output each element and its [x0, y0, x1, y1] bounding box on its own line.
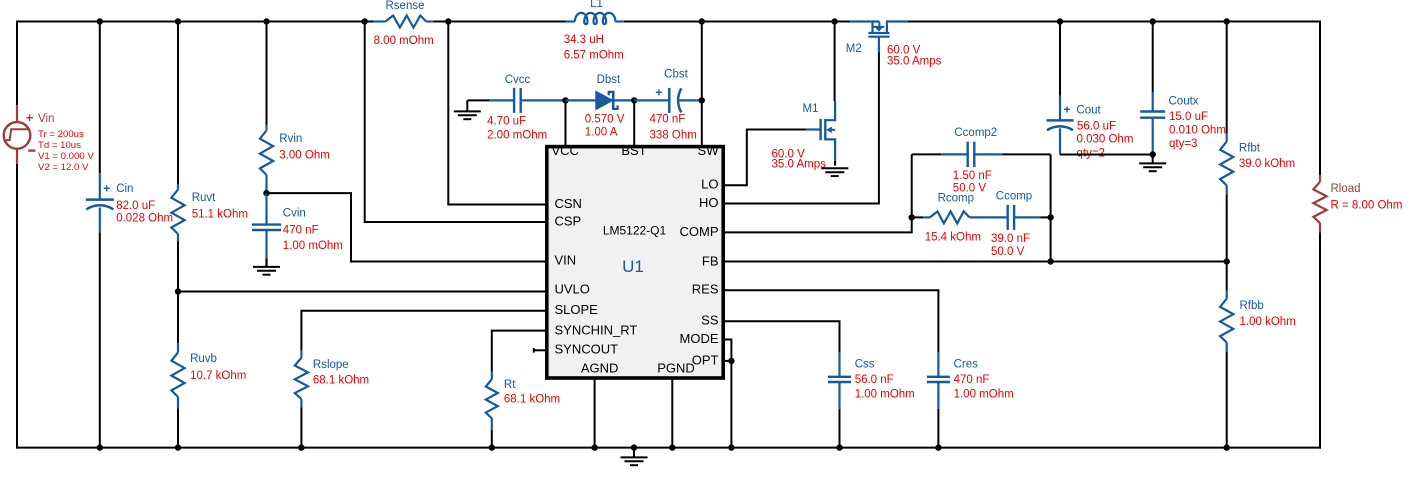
capacitor Cbst	[668, 88, 671, 113]
svg-text:R = 8.00 Ohm: R = 8.00 Ohm	[1331, 199, 1403, 211]
svg-text:Rcomp: Rcomp	[938, 192, 974, 204]
capacitor Cout	[1059, 96, 1061, 121]
wire M1 source	[834, 161, 836, 166]
node top rail Rvin junction	[263, 18, 269, 24]
node UVLO junction	[175, 288, 181, 294]
svg-text:Rsense: Rsense	[386, 0, 425, 12]
wire Ccomp2 left lead	[912, 153, 942, 155]
wire MODE net	[723, 340, 731, 448]
svg-text:M2: M2	[846, 43, 862, 55]
svg-text:0.010 Ohm: 0.010 Ohm	[1169, 124, 1226, 136]
node comp right junction	[1047, 214, 1053, 220]
wire Rfbb bottom	[1226, 352, 1228, 448]
ground M1	[821, 167, 848, 169]
transistor M1	[819, 119, 821, 140]
svg-text:L1: L1	[590, 0, 603, 10]
wire Dbst to BST node	[613, 99, 634, 101]
svg-text:35.0 Amps: 35.0 Amps	[772, 159, 827, 171]
resistor Rslope	[300, 351, 302, 358]
svg-text:SW: SW	[698, 143, 720, 158]
svg-text:56.0 uF: 56.0 uF	[1077, 121, 1116, 133]
svg-text:AGND: AGND	[581, 360, 619, 375]
svg-text:6.57 mOhm: 6.57 mOhm	[564, 49, 624, 61]
wire Rcomp to Ccomp	[970, 216, 1008, 218]
resistor Ruvt	[177, 184, 179, 190]
svg-text:+: +	[103, 181, 110, 195]
svg-text:50.0 V: 50.0 V	[991, 246, 1025, 258]
svg-text:39.0 kOhm: 39.0 kOhm	[1239, 158, 1295, 170]
svg-text:Rvin: Rvin	[279, 133, 302, 145]
wire comp left vertical	[911, 154, 913, 217]
node bottom rail Ruvb junction	[175, 444, 181, 450]
wire UVLO	[178, 291, 547, 293]
node bottom rail AGND junction	[591, 444, 597, 450]
wire Rt bottom	[491, 430, 493, 448]
svg-text:1.00 A: 1.00 A	[585, 126, 618, 138]
wire AGND pin	[594, 378, 596, 448]
svg-text:SLOPE: SLOPE	[555, 302, 599, 317]
svg-text:Cvcc: Cvcc	[505, 74, 531, 86]
node BST junction	[631, 97, 637, 103]
node top rail Cout junction	[1057, 18, 1063, 24]
svg-text:1.00 mOhm: 1.00 mOhm	[954, 389, 1014, 401]
wire PGND pin	[671, 378, 673, 448]
svg-text:CSN: CSN	[555, 196, 582, 211]
wire Cvcc to VCC node	[521, 99, 566, 101]
svg-text:Ruvt: Ruvt	[192, 192, 216, 204]
svg-text:SS: SS	[701, 313, 719, 328]
wire RES net	[723, 290, 938, 352]
resistor Rfbb	[1226, 291, 1228, 299]
resistor Rvin	[265, 125, 267, 131]
wire OPT stub	[723, 360, 731, 362]
capacitor Cvin	[265, 193, 267, 225]
ground Cvcc	[466, 100, 468, 111]
wire Ccomp2 right lead	[974, 153, 1002, 155]
wire Rfbb top	[1226, 262, 1228, 291]
node bottom rail Cin junction	[97, 444, 103, 450]
node top rail Ruvt junction	[175, 18, 181, 24]
wire Rload bottom	[1319, 232, 1321, 448]
svg-text:51.1 kOhm: 51.1 kOhm	[192, 209, 248, 221]
svg-text:Rload: Rload	[1331, 183, 1361, 195]
svg-text:15.0 uF: 15.0 uF	[1169, 111, 1208, 123]
svg-text:1.50 nF: 1.50 nF	[953, 170, 992, 182]
svg-text:56.0 nF: 56.0 nF	[855, 374, 894, 386]
svg-text:1.00 mOhm: 1.00 mOhm	[855, 389, 915, 401]
svg-text:Rfbb: Rfbb	[1240, 300, 1264, 312]
wire LO net	[723, 130, 806, 186]
wire SW pin	[701, 22, 703, 147]
svg-text:RES: RES	[692, 282, 719, 297]
wire Cout ground link	[1060, 154, 1153, 156]
wire Rvin top	[266, 22, 268, 125]
svg-text:34.3 uH: 34.3 uH	[564, 34, 604, 46]
svg-text:OPT: OPT	[692, 352, 719, 367]
svg-text:39.0 nF: 39.0 nF	[991, 233, 1030, 245]
svg-text:338 Ohm: 338 Ohm	[650, 130, 697, 142]
wire top rail L1 to M2	[624, 21, 850, 23]
svg-text:Ruvb: Ruvb	[190, 353, 217, 365]
svg-text:M1: M1	[803, 103, 819, 115]
node Rsense left junction	[362, 18, 368, 24]
wire top rail Vin to Rsense	[16, 21, 374, 23]
wire Cin bottom	[99, 233, 101, 448]
wire BST node to Cbst	[634, 99, 669, 101]
svg-text:1.00 mOhm: 1.00 mOhm	[283, 240, 343, 252]
wire top rail M2 to output corner	[908, 21, 1321, 23]
wire VCC node to Dbst	[566, 99, 596, 101]
node Cvin junction	[263, 190, 269, 196]
voltage source Vin	[16, 105, 18, 122]
node FB Rfbt junction	[1224, 258, 1230, 264]
ground Cvin	[265, 258, 267, 267]
svg-text:Cin: Cin	[116, 183, 133, 195]
wire Cin top	[99, 22, 101, 174]
svg-text:Rfbt: Rfbt	[1239, 143, 1261, 155]
svg-text:qty=3: qty=3	[1169, 138, 1197, 150]
wire comp right vertical	[1050, 154, 1052, 261]
node top rail Cin junction	[97, 18, 103, 24]
wire top rail Rsense to L1	[434, 21, 566, 23]
wire left edge bottom	[16, 164, 18, 449]
capacitor Css	[838, 352, 840, 377]
node bottom rail PGND junction	[669, 444, 675, 450]
wire CSN net	[448, 22, 546, 205]
resistor Rt	[491, 372, 493, 380]
ground Cout Coutx	[1152, 155, 1154, 164]
resistor Rcomp	[930, 211, 970, 223]
svg-text:MODE: MODE	[680, 331, 719, 346]
wire SS net	[723, 321, 840, 352]
svg-text:Rslope: Rslope	[313, 359, 349, 371]
node comp left junction	[909, 214, 915, 220]
wire M1 drain	[834, 22, 836, 102]
svg-text:1.00 kOhm: 1.00 kOhm	[1240, 316, 1296, 328]
svg-text:VIN: VIN	[555, 252, 577, 267]
svg-text:Ccomp: Ccomp	[996, 190, 1032, 202]
svg-text:LM5122-Q1: LM5122-Q1	[603, 223, 667, 237]
svg-text:+: +	[1064, 103, 1071, 117]
node output ground junction	[1150, 151, 1156, 157]
svg-text:15.4 kOhm: 15.4 kOhm	[925, 231, 981, 243]
wire Ruvt to Ruvb	[177, 242, 179, 344]
inductor L1	[566, 20, 575, 22]
wire Cout top	[1059, 22, 1061, 96]
node SW junction top rail	[699, 18, 705, 24]
wire HO net	[723, 53, 879, 204]
svg-text:Td = 10us: Td = 10us	[38, 140, 81, 151]
node Rsense right junction	[445, 18, 451, 24]
svg-text:470 nF: 470 nF	[283, 225, 319, 237]
svg-text:BST: BST	[621, 143, 646, 158]
node bottom rail Rt junction	[489, 444, 495, 450]
node top rail Rfbt junction	[1224, 18, 1230, 24]
svg-text:SYNCHIN_RT: SYNCHIN_RT	[555, 322, 638, 337]
node bottom rail Cres junction	[935, 444, 941, 450]
node bottom rail Rslope junction	[298, 444, 304, 450]
transistor M2	[850, 20, 879, 22]
wire SYNCOUT stub	[534, 349, 547, 351]
wire Rfbt bottom	[1226, 194, 1228, 261]
wire Ruvb bottom	[177, 408, 179, 447]
node VCC junction	[562, 97, 568, 103]
wire bottom ground rail	[16, 447, 1321, 449]
capacitor Cres	[937, 352, 939, 377]
wire FB net	[723, 261, 1227, 263]
wire Ccomp right lead	[1014, 216, 1040, 218]
svg-text:470 nF: 470 nF	[954, 374, 990, 386]
svg-text:0.028 Ohm: 0.028 Ohm	[116, 213, 173, 225]
svg-text:Cvin: Cvin	[283, 208, 306, 220]
svg-text:Vin: Vin	[38, 113, 54, 125]
svg-text:82.0 uF: 82.0 uF	[116, 200, 155, 212]
svg-text:U1: U1	[622, 257, 644, 276]
diode Dbst	[596, 91, 613, 109]
svg-text:Cout: Cout	[1076, 105, 1101, 117]
ground bottom rail	[631, 444, 637, 450]
svg-text:3.00 Ohm: 3.00 Ohm	[279, 150, 330, 162]
resistor Rfbt	[1226, 134, 1228, 142]
svg-text:0.570 V: 0.570 V	[585, 113, 625, 125]
capacitor Cvcc	[513, 88, 515, 113]
svg-text:8.00 mOhm: 8.00 mOhm	[374, 35, 434, 47]
svg-text:470 nF: 470 nF	[650, 113, 686, 125]
wire Coutx top	[1152, 22, 1154, 93]
wire VCC pin	[565, 100, 567, 146]
wire Rload top	[1319, 21, 1321, 176]
node comp FB junction	[1047, 258, 1053, 264]
svg-text:LO: LO	[701, 177, 718, 192]
op-amp U1 body	[547, 147, 723, 378]
wire Cres bottom	[937, 409, 939, 448]
svg-text:Dbst: Dbst	[597, 74, 621, 86]
wire VIN net	[267, 193, 547, 261]
node bottom rail Rfbb junction	[1224, 444, 1230, 450]
svg-text:Tr = 200us: Tr = 200us	[38, 129, 84, 140]
svg-text:Ccomp2: Ccomp2	[954, 127, 997, 139]
svg-text:PGND: PGND	[657, 360, 695, 375]
capacitor Coutx	[1152, 92, 1154, 112]
capacitor Cin	[86, 198, 114, 201]
svg-text:0.030 Ohm: 0.030 Ohm	[1077, 134, 1134, 146]
svg-text:FB: FB	[702, 253, 719, 268]
svg-text:68.1 kOhm: 68.1 kOhm	[313, 374, 369, 386]
capacitor Ccomp	[1007, 205, 1009, 230]
svg-text:CSP: CSP	[555, 214, 582, 229]
svg-text:68.1 kOhm: 68.1 kOhm	[504, 394, 560, 406]
svg-text:+: +	[655, 85, 662, 99]
svg-text:35.0 Amps: 35.0 Amps	[887, 56, 942, 68]
wire SLOPE net	[301, 311, 546, 351]
svg-text:COMP: COMP	[680, 224, 719, 239]
capacitor Ccomp2	[967, 142, 969, 168]
node bottom rail MODE junction	[728, 444, 734, 450]
svg-text:+: +	[26, 110, 34, 125]
svg-text:Cbst: Cbst	[664, 69, 688, 81]
svg-text:V1 = 0.000 V: V1 = 0.000 V	[38, 151, 94, 162]
wire Cbst to SW	[679, 99, 703, 101]
wire COMP net	[723, 217, 912, 232]
node bottom rail Css junction	[836, 444, 842, 450]
svg-text:2.00 mOhm: 2.00 mOhm	[487, 130, 547, 142]
wire Rfbt top	[1226, 22, 1228, 134]
resistor Rsense	[373, 20, 385, 22]
node OPT junction	[728, 358, 734, 364]
svg-text:Rt: Rt	[504, 379, 516, 391]
svg-text:Coutx: Coutx	[1169, 96, 1199, 108]
svg-text:4.70 uF: 4.70 uF	[487, 116, 526, 128]
wire SYNCHIN_RT net	[492, 331, 547, 372]
resistor Rload	[1319, 175, 1321, 182]
wire Rslope bottom	[300, 407, 302, 447]
svg-text:V2 = 12.0 V: V2 = 12.0 V	[38, 162, 89, 173]
resistor Ruvb	[177, 343, 179, 352]
wire BST pin	[633, 100, 635, 146]
wire Css bottom	[839, 409, 841, 448]
wire CSP net	[365, 22, 547, 223]
svg-text:Css: Css	[855, 358, 875, 370]
svg-text:Cres: Cres	[954, 358, 979, 370]
wire Rcomp left lead	[912, 216, 924, 218]
svg-text:UVLO: UVLO	[555, 282, 590, 297]
wire left edge top	[16, 21, 18, 106]
wire Cvcc left	[467, 99, 489, 101]
svg-text:HO: HO	[699, 195, 719, 210]
wire Ruvt top	[177, 22, 179, 185]
svg-text:SYNCOUT: SYNCOUT	[555, 342, 619, 357]
node top rail Coutx junction	[1150, 18, 1156, 24]
svg-text:VCC: VCC	[552, 143, 579, 158]
node M1 drain junction	[831, 18, 837, 24]
svg-text:10.7 kOhm: 10.7 kOhm	[190, 370, 246, 382]
